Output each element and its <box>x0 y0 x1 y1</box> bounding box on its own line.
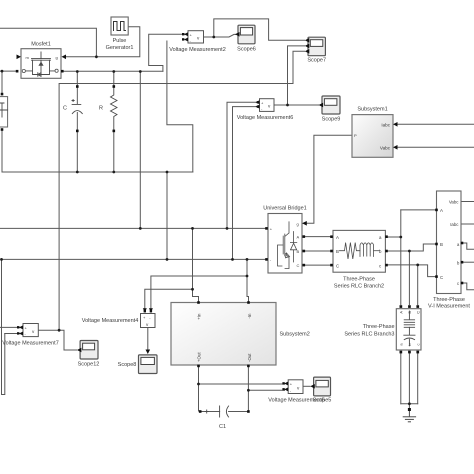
wire plus-in leg <box>193 228 199 301</box>
svg-text:Voltage Measurement6: Voltage Measurement6 <box>237 115 294 121</box>
svg-text:Scope7: Scope7 <box>307 57 326 63</box>
svg-text:Scope8: Scope8 <box>118 362 137 368</box>
svg-text:Vabc: Vabc <box>449 200 459 205</box>
scope Scope12 <box>77 341 99 368</box>
wire dc-plus leg to H1 <box>139 72 141 229</box>
wire branch2 c and S-bend to C <box>387 265 436 277</box>
svg-text:+Out: +Out <box>196 352 201 362</box>
svg-text:Scope5: Scope5 <box>313 398 332 404</box>
wire Iabc output to edge <box>462 223 474 225</box>
wire H1 dc-plus bus y=228.4 <box>0 227 267 229</box>
wire a output S-bend <box>463 243 474 249</box>
svg-text:V-I Measurement: V-I Measurement <box>428 304 470 310</box>
svg-text:A: A <box>440 208 443 213</box>
wire phase A vertical <box>400 210 402 305</box>
wire pulse generator output <box>65 27 140 57</box>
wire VM7 signal to Scope7 input3 <box>59 51 304 330</box>
svg-text:Pulse: Pulse <box>113 38 127 44</box>
resistor R <box>99 85 117 132</box>
svg-text:A: A <box>297 235 300 240</box>
svg-text:Generator1: Generator1 <box>106 45 134 51</box>
svg-text:A: A <box>336 235 339 240</box>
scope Scope6 <box>235 25 256 52</box>
wire d-net down to diode <box>1 71 3 92</box>
diode D1 block (cut at left edge) <box>0 93 8 131</box>
svg-text:g: g <box>56 55 58 60</box>
pulse generator block Pulse Generator1 <box>106 17 134 51</box>
svg-text:B: B <box>440 242 443 247</box>
svg-text:Three-Phase: Three-Phase <box>363 324 395 330</box>
wire C bottom <box>76 131 78 172</box>
wire H2 dc-minus bus y=259.4 <box>2 258 267 260</box>
wire VM2 minus route <box>167 41 193 172</box>
svg-text:Subsystem1: Subsystem1 <box>357 107 387 113</box>
svg-text:Vabc: Vabc <box>380 145 391 150</box>
svg-text:C1: C1 <box>219 424 226 430</box>
svg-text:R: R <box>99 105 103 111</box>
mosfet Q1 block Mosfet1 <box>16 42 66 79</box>
voltage measurement VM5 Voltage Measurement5 <box>268 380 325 404</box>
wire branch3 common <box>401 404 418 408</box>
wire b output <box>463 261 474 263</box>
wire VM6 signal to Scope7 input2 <box>288 46 305 105</box>
svg-text:Scope6: Scope6 <box>237 47 256 53</box>
wire VM4 input2 <box>151 276 247 312</box>
wire diode bottom to rail <box>1 130 3 173</box>
svg-text:Iabc: Iabc <box>450 222 459 227</box>
wire branch2 b and S-bend to B <box>387 244 436 251</box>
voltage measurement VM7 Voltage Measurement7 <box>2 324 59 347</box>
wire branch2 a <box>387 236 401 238</box>
wire VM2 output to junction <box>204 36 214 38</box>
voltage measurement VM6 Voltage Measurement6 <box>237 99 294 121</box>
capacitor C <box>63 85 82 132</box>
svg-text:Universal Bridge1: Universal Bridge1 <box>263 206 306 212</box>
wire VM6 minus leg <box>233 107 259 260</box>
wire C1 right lead <box>229 411 249 413</box>
svg-text:c: c <box>457 281 459 286</box>
voltage measurement VM2 Voltage Measurement2 <box>169 31 226 53</box>
wire VM4 input1 <box>145 289 193 312</box>
wire dc-plus rail y=71.5 <box>62 70 163 72</box>
svg-text:Voltage Measurement4: Voltage Measurement4 <box>82 318 139 324</box>
mosfet m output arrow (unconnected) <box>17 55 22 60</box>
svg-text:C: C <box>63 105 67 111</box>
wire minus-in leg <box>247 259 249 301</box>
svg-text:Series RLC Branch3: Series RLC Branch3 <box>344 332 394 338</box>
wire branch3 phase drops <box>401 353 418 403</box>
svg-text:Voltage Measurement7: Voltage Measurement7 <box>2 340 59 346</box>
wire c output S-bend <box>463 283 474 290</box>
scope Scope7 <box>305 37 326 63</box>
wire left u-turn <box>2 334 5 395</box>
wire phase B vertical <box>408 251 410 305</box>
wire Vabc output to edge <box>462 201 474 203</box>
wire bridge C to branch2 C <box>304 264 331 266</box>
svg-text:Three-Phase: Three-Phase <box>343 277 375 283</box>
mosfet g input arrowhead <box>62 55 67 60</box>
svg-text:Scope12: Scope12 <box>78 362 100 368</box>
svg-text:Subsystem2: Subsystem2 <box>280 331 310 337</box>
subsystem Subsystem2 <box>171 301 310 367</box>
wire R bottom <box>113 131 115 172</box>
three-phase series RLC branch3 (vertical) <box>344 305 421 353</box>
wire VM2 plus route <box>149 34 187 71</box>
svg-text:Three-Phase: Three-Phase <box>433 297 465 303</box>
ground symbol <box>403 411 415 422</box>
svg-text:c: c <box>416 344 421 346</box>
wire gate net top-left <box>0 28 96 57</box>
wire dc-minus drop to H2 <box>166 172 168 259</box>
svg-text:Mosfet1: Mosfet1 <box>31 42 51 48</box>
svg-text:C: C <box>297 263 300 268</box>
wire bridge B to branch2 B <box>304 250 331 252</box>
wire subsystem2 plus-out down <box>198 367 200 412</box>
svg-text:B: B <box>336 249 339 254</box>
svg-text:A: A <box>399 311 404 314</box>
wire VM6 plus leg <box>227 102 259 228</box>
wire H2 left leg down <box>1 259 3 394</box>
scope Scope5 <box>310 377 331 404</box>
wire VM4 output to Scope8 <box>147 328 149 353</box>
svg-text:g: g <box>297 222 299 227</box>
wire Vabc into Subsystem1 <box>397 146 474 148</box>
svg-text:Series RLC Branch2: Series RLC Branch2 <box>334 283 384 289</box>
svg-text:Iabc: Iabc <box>381 122 390 127</box>
wire to VM5 minus <box>248 389 284 391</box>
svg-text:+In: +In <box>196 313 201 320</box>
scope Scope9 <box>319 96 341 123</box>
scope Scope8 <box>118 350 157 374</box>
wire C1 left lead <box>200 411 220 413</box>
wire subsystem2 minus-out down <box>247 367 249 412</box>
wire R top <box>113 72 115 86</box>
svg-text:C: C <box>336 263 339 268</box>
wire A into V-I measurement <box>401 209 435 211</box>
svg-text:C: C <box>416 311 421 314</box>
wire mosfet d to left edge <box>0 70 17 72</box>
svg-text:P: P <box>354 133 357 138</box>
wire phase C vertical <box>417 265 419 305</box>
three-phase series RLC branch2 <box>330 230 388 289</box>
voltage measurement VM4 (rotated) Voltage Measurement4 <box>82 308 155 327</box>
svg-text:Scope9: Scope9 <box>322 117 341 123</box>
svg-text:B: B <box>297 249 300 254</box>
wire to VM5 plus <box>199 383 285 385</box>
wire VM7 output signal <box>38 329 59 331</box>
wire Iabc into Subsystem1 <box>397 123 474 125</box>
svg-text:-In: -In <box>247 313 252 319</box>
wire VM7 signal to Scope12 <box>59 330 76 350</box>
wire VM2 signal to Scope7 input1 <box>214 19 305 40</box>
wire VM7 minus input <box>5 333 20 335</box>
wire junction to Scope6 <box>214 34 236 37</box>
capacitor C1 <box>199 406 250 430</box>
wire C top <box>76 72 78 86</box>
universal bridge U1 Universal Bridge1 <box>263 206 307 273</box>
three-phase V-I measurement <box>428 191 470 310</box>
wire dc-minus rail y=172 <box>2 171 193 173</box>
wire VM5 output to Scope5 <box>303 385 310 387</box>
svg-text:-Out: -Out <box>247 353 252 362</box>
wire VM6 output to Scope9 <box>274 104 319 106</box>
svg-text:Voltage Measurement2: Voltage Measurement2 <box>169 47 226 53</box>
wire bridge A to branch2 A <box>304 236 331 238</box>
wire Subsystem1 out to bridge gate <box>307 135 353 223</box>
svg-text:C: C <box>440 275 443 280</box>
wire VM7 plus input <box>0 326 20 328</box>
subsystem Subsystem1 <box>352 107 398 158</box>
